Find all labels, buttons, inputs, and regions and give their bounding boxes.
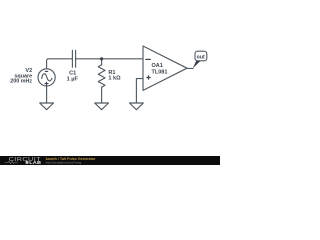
ground (R1) — [95, 103, 109, 110]
wire node to resistor — [101, 59, 103, 65]
minus sign op-amp input — [145, 58, 150, 60]
out flag pointer — [193, 61, 201, 69]
op-amp OA1 triangle — [143, 46, 187, 90]
svg-text:200 mHz: 200 mHz — [10, 79, 32, 85]
footer logo zigzag — [5, 161, 18, 163]
capacitor C1 — [72, 50, 75, 67]
junction node dot — [100, 57, 103, 60]
svg-text:1 µF: 1 µF — [67, 76, 79, 82]
svg-text:LAB: LAB — [29, 160, 41, 165]
footer logo icon — [26, 161, 29, 164]
voltage source V2 — [38, 69, 55, 86]
plus sign op-amp input — [146, 75, 150, 79]
svg-text:http://circuitlab.com/ce7mvrg: http://circuitlab.com/ce7mvrg — [46, 160, 82, 164]
svg-text:OA1: OA1 — [152, 63, 163, 69]
resistor R1 — [98, 65, 105, 87]
ground (op-amp +) — [130, 103, 144, 110]
out flag box — [195, 51, 207, 61]
wire V2 top to capacitor — [47, 59, 72, 69]
plus sign V2 — [45, 82, 49, 86]
svg-text:TL081: TL081 — [152, 70, 168, 76]
svg-text:1 kΩ: 1 kΩ — [108, 76, 121, 82]
wire resistor to ground — [101, 87, 103, 103]
wire op-amp plus input — [136, 79, 143, 103]
wire capacitor to op-amp minus input — [76, 58, 143, 60]
wire op-amp output — [187, 67, 193, 69]
footer bar — [0, 156, 220, 165]
wire V2 bottom to ground — [46, 86, 48, 103]
minus sign V2 — [45, 70, 48, 72]
ground (V2) — [40, 103, 54, 110]
svg-text:out: out — [197, 54, 205, 60]
